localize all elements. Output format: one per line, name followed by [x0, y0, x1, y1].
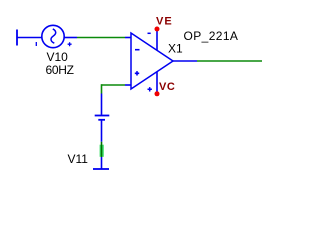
plus mark V10: [68, 42, 72, 46]
terminal bar left: [16, 30, 18, 46]
AC source V10 circle: [42, 25, 64, 47]
minus power marker: [148, 32, 151, 34]
svg-text:VC: VC: [159, 81, 175, 93]
pin stub inverting: [125, 37, 131, 39]
svg-text:V11: V11: [68, 152, 89, 166]
plus power marker: [148, 87, 152, 91]
battery V11 long plate: [95, 115, 110, 117]
output net wire: [197, 60, 262, 62]
svg-text:X1: X1: [168, 42, 183, 56]
svg-text:60HZ: 60HZ: [46, 63, 74, 77]
VE pin wire: [156, 29, 158, 50]
op-amp U X1 triangle: [131, 33, 173, 89]
wire net noninverting horizontal: [102, 84, 126, 86]
svg-text:VE: VE: [156, 16, 173, 28]
wire blue to battery: [101, 94, 103, 115]
plus input label: [135, 71, 139, 75]
svg-text:OP_221A: OP_221A: [184, 29, 239, 43]
minus tick V10: [35, 42, 37, 46]
selection highlight band: [100, 145, 104, 157]
VC pin wire: [156, 72, 158, 94]
sine symbol: [51, 29, 56, 43]
battery bottom pin: [101, 120, 103, 142]
wire net to inverting input: [77, 37, 125, 39]
VE node dot: [155, 27, 160, 32]
output pin stub: [173, 60, 197, 62]
svg-text:V10: V10: [47, 50, 69, 64]
wire blue to bottom terminal: [101, 157, 103, 169]
battery V11 short plate: [98, 119, 105, 121]
wire net vertical green: [101, 84, 103, 93]
VC node dot: [155, 91, 160, 96]
wire: [17, 37, 42, 39]
pin stub noninverting: [125, 84, 131, 86]
terminal bar bottom: [93, 168, 109, 170]
pin stub: [64, 37, 77, 39]
wire net green battery to terminal: [101, 142, 103, 157]
minus input label: [135, 49, 140, 51]
